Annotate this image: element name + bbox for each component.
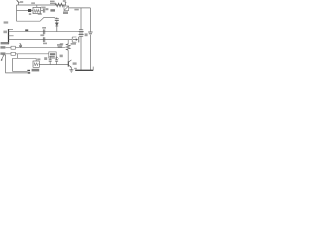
wire n58 (13, 57, 37, 59)
transistor Q2 (64, 2, 69, 10)
pin stub 1 (9, 29, 14, 31)
wire D+ cont (15, 47, 65, 49)
label 1k (50, 9, 55, 11)
label D- (0, 52, 5, 54)
label 4MHz (32, 69, 40, 72)
label between rails (85, 33, 88, 36)
label above U2 (57, 44, 63, 46)
label 4n7 (46, 8, 49, 10)
label rb (38, 13, 42, 15)
label above box (31, 2, 35, 4)
capacitor C6 (43, 37, 45, 42)
wire D- cont (15, 53, 48, 55)
label b1 (63, 0, 66, 2)
wire right rail B lower (89, 35, 91, 71)
wire crystal stub (35, 58, 37, 61)
IC box U2 (49, 52, 56, 58)
diode D1 (55, 23, 58, 32)
ground Q1 (69, 70, 73, 72)
capacitor C9 (88, 32, 92, 34)
trimmer cap CT1 (19, 43, 22, 48)
capacitor C7 (49, 56, 52, 64)
resistor R1 (55, 3, 63, 7)
wire right rail A lower (80, 36, 82, 70)
label R1 (50, 1, 55, 2)
test point TP1 arrow (17, 0, 20, 5)
label right of U2 (60, 55, 63, 58)
wire right border stub (92, 67, 94, 71)
label +C (20, 1, 23, 3)
wire D- (6, 53, 11, 55)
wire D+ (6, 47, 11, 49)
end tick 2 (28, 72, 30, 73)
label value (50, 3, 55, 4)
crystal X1 box (33, 61, 39, 67)
label 5V 1A (1, 42, 9, 44)
label small (29, 13, 31, 15)
resistor R5 vertical (66, 40, 70, 62)
input arrow left (1, 55, 6, 61)
junction tick (25, 29, 28, 31)
label right small (60, 43, 63, 45)
resistor R3 box (11, 46, 15, 49)
label near stub (37, 58, 40, 60)
wire left drop (16, 5, 18, 21)
wire right rail B (89, 8, 91, 32)
label Q1 (73, 62, 77, 64)
capacitor C2 blob (28, 9, 31, 12)
wire bus lower (9, 39, 73, 41)
wire to right rails (69, 7, 91, 9)
wire outer L (6, 55, 29, 73)
capacitor C3 (43, 9, 45, 13)
wire bus upper (9, 31, 79, 33)
wire inner L (13, 58, 28, 71)
label mid cap (40, 34, 44, 36)
capacitor C8 (55, 57, 59, 65)
transistor Q1 (68, 60, 71, 70)
wire bottom bus thick (75, 69, 93, 71)
connector J1 bar (8, 29, 10, 44)
connector out arrow (72, 37, 79, 43)
crystal Y1 hatched (79, 30, 84, 36)
wire box right pin (41, 10, 43, 12)
wire drop to n58 (17, 54, 19, 59)
end tick 1 (27, 70, 30, 71)
label A left (4, 21, 9, 23)
resistor R4 box (11, 52, 15, 55)
wire top rail (17, 4, 67, 6)
module box U1 (33, 5, 41, 14)
wire bottom (39, 64, 68, 66)
label under Q2 (63, 11, 68, 14)
label right of Q2 (74, 9, 78, 11)
wire mid branch (17, 10, 34, 12)
label pin text (3, 31, 7, 34)
label C6 (43, 43, 47, 45)
capacitor C4 (55, 17, 59, 22)
wire right rail A (80, 8, 82, 30)
label under arrow (71, 43, 76, 45)
label Bat (41, 7, 45, 9)
label 24 (44, 57, 47, 60)
label D+ (0, 46, 5, 48)
wire jog (17, 17, 56, 21)
label C5 (42, 27, 46, 29)
pin stub 2 (9, 35, 14, 37)
capacitor C5 (43, 29, 45, 34)
label near bus end (74, 68, 77, 69)
